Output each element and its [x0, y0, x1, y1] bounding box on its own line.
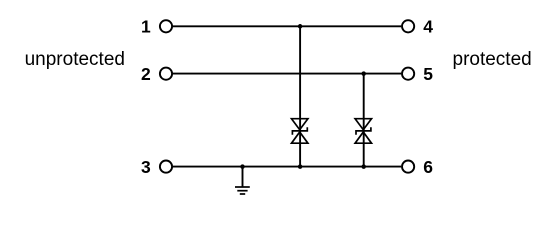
terminal 6: [402, 161, 414, 173]
junction row3/ground: [240, 164, 245, 169]
svg-text:1: 1: [141, 16, 151, 36]
svg-text:4: 4: [423, 16, 433, 36]
junction row3/branch2: [361, 164, 366, 169]
suppressor diode D1: [292, 119, 308, 144]
svg-text:3: 3: [141, 157, 151, 177]
junction row1/branch1: [298, 24, 303, 29]
terminal 4: [402, 20, 414, 32]
svg-text:6: 6: [423, 157, 433, 177]
junction row3/branch1: [298, 164, 303, 169]
terminal 1: [160, 20, 172, 32]
terminal 5: [402, 68, 414, 80]
junction row2/branch2: [361, 71, 366, 76]
wire row 3 (3 to 6): [173, 166, 401, 168]
wire row 2 (2 to 5): [173, 73, 401, 75]
wire vertical branch 2: [363, 74, 365, 167]
svg-text:protected: protected: [453, 49, 532, 70]
ground: [235, 167, 250, 194]
terminal 3: [160, 161, 172, 173]
wire vertical branch 1: [299, 26, 301, 166]
wire row 1 (1 to 4): [173, 25, 401, 27]
svg-text:unprotected: unprotected: [25, 49, 125, 70]
svg-text:2: 2: [141, 64, 151, 84]
terminal 2: [160, 68, 172, 80]
suppressor diode D2: [355, 119, 371, 144]
svg-text:5: 5: [423, 64, 433, 84]
